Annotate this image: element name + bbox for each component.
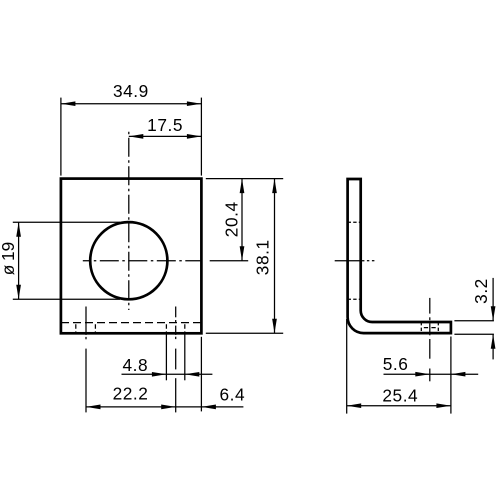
34.9 extension line left: [60, 98, 62, 176]
20.4 dimension line: [241, 179, 243, 261]
side slot centerline: [429, 298, 431, 314]
svg-text:17.5: 17.5: [147, 115, 183, 135]
right edge extension below: [200, 337, 202, 412]
side view L outline: [348, 179, 451, 333]
vertical centerline of hole: [128, 132, 130, 310]
5.6 dimension line: [384, 373, 479, 375]
front view plate outline: [61, 179, 202, 334]
4.8 extension line left: [165, 335, 167, 381]
svg-text:22.2: 22.2: [113, 383, 149, 403]
bottom right extension line: [206, 332, 283, 334]
25.4 extension line right: [450, 337, 452, 414]
dia19 extension bottom: [13, 298, 120, 300]
svg-text:3.2: 3.2: [471, 278, 491, 304]
dia19 dimension line: [18, 222, 20, 299]
svg-text:4.8: 4.8: [122, 355, 148, 375]
svg-text:25.4: 25.4: [382, 386, 418, 406]
svg-text:ø 19: ø 19: [0, 242, 18, 276]
side slot hidden edge b: [437, 322, 439, 333]
horizontal centerline of hole: [83, 260, 201, 262]
hole circle: [90, 222, 167, 299]
34.9 extension line right: [200, 98, 202, 176]
right slot hidden edge a: [165, 324, 167, 333]
25.4 extension line left: [346, 319, 348, 414]
bend tangent dashed line: [61, 322, 201, 324]
left slot centerline: [85, 307, 87, 335]
3.2 extension line bottom: [454, 333, 494, 335]
svg-text:6.4: 6.4: [219, 384, 245, 404]
top right extension line: [206, 178, 283, 180]
38.1 dimension line: [274, 179, 276, 334]
3.2 dimension line: [492, 278, 494, 321]
4.8 dimension line: [122, 373, 213, 375]
svg-text:38.1: 38.1: [253, 239, 273, 275]
22.2 / 6.4 dimension line: [86, 406, 243, 408]
dia19 extension top: [13, 221, 120, 223]
left slot hidden edge b: [94, 324, 96, 333]
3.2 extension line top: [454, 320, 494, 322]
34.9 dimension line: [61, 103, 202, 105]
mid right extension line: [210, 260, 249, 262]
svg-text:5.6: 5.6: [383, 354, 409, 374]
4.8 extension line right: [184, 335, 186, 381]
side slot hidden edge a: [420, 322, 422, 333]
25.4 dimension line: [347, 405, 451, 407]
side slot hidden bottom: [424, 327, 436, 329]
17.5 dimension line: [129, 135, 202, 137]
side hole centerline: [335, 260, 365, 262]
hidden hole bottom edge in side view: [348, 298, 361, 300]
svg-text:34.9: 34.9: [113, 81, 149, 101]
left slot hidden edge a: [75, 324, 77, 333]
svg-text:20.4: 20.4: [221, 201, 241, 237]
right slot centerline: [175, 307, 177, 318]
hidden hole top edge in side view: [348, 221, 361, 223]
right slot hidden edge b: [184, 324, 186, 333]
